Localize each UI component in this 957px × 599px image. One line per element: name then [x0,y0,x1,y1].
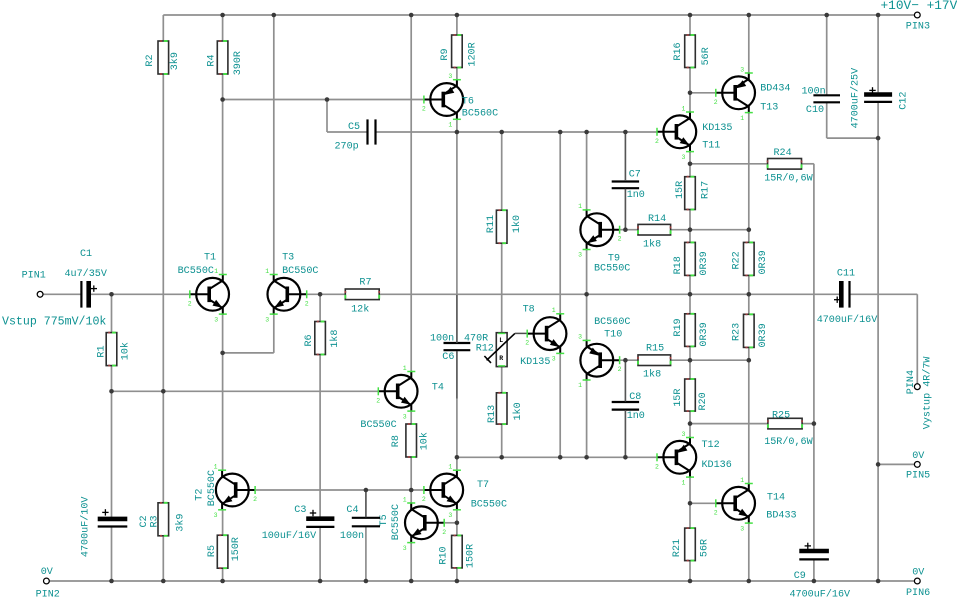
resistor R18 [673,242,710,275]
svg-text:BC560C: BC560C [462,109,498,120]
terminal PIN5 [906,451,930,482]
wire [624,133,626,181]
svg-text:KD135: KD135 [702,123,732,134]
wire [307,293,346,295]
svg-text:T10: T10 [604,330,622,341]
wire [456,568,458,581]
svg-text:15R/0,6W: 15R/0,6W [764,436,813,448]
svg-text:10k: 10k [418,432,430,450]
wire [319,294,321,321]
junction [812,421,817,426]
svg-text:BC550C: BC550C [207,470,218,506]
svg-text:R17: R17 [700,181,711,199]
svg-text:BC550C: BC550C [471,500,507,511]
transistor T9 BC550C [578,203,630,274]
svg-text:R14: R14 [648,214,666,225]
wire [222,568,224,581]
svg-text:0V: 0V [41,567,53,578]
wire [802,163,814,165]
svg-text:T1: T1 [204,252,216,263]
svg-text:C4: C4 [346,505,358,516]
wire [689,15,691,35]
svg-text:1: 1 [740,477,744,484]
svg-text:2: 2 [714,509,718,516]
wire [410,15,412,371]
wire [223,99,425,101]
svg-text:1n0: 1n0 [627,411,645,422]
svg-text:3: 3 [403,413,407,420]
capacitor C5 [335,119,376,152]
wire [326,100,328,133]
capacitor C2 [79,497,150,558]
wire [748,15,750,72]
junction [364,579,369,584]
svg-text:PIN4: PIN4 [906,370,917,394]
junction [688,162,693,167]
wire [456,295,458,343]
transistor T8 KD135 [520,305,566,369]
svg-text:3: 3 [214,316,218,323]
junction [623,130,628,135]
wire [457,456,657,458]
junction [623,455,628,460]
junction [688,421,693,426]
svg-text:2: 2 [655,138,659,145]
svg-text:R16: R16 [673,42,684,60]
wire [827,137,878,139]
svg-text:PIN5: PIN5 [906,471,930,482]
junction [161,579,166,584]
svg-text:100uF/16V: 100uF/16V [262,530,317,542]
wire [689,152,691,164]
capacitor C9 [790,543,851,599]
resistor R14 [638,214,671,251]
svg-text:R22: R22 [732,251,743,269]
junction [318,579,323,584]
wire [376,131,457,133]
resistor R16 [673,35,712,68]
svg-text:0V: 0V [912,451,924,462]
capacitor C11 [817,269,878,326]
resistor R2 [145,41,181,74]
junction [220,97,225,102]
svg-text:T2: T2 [194,489,205,501]
svg-text:1: 1 [448,464,452,471]
svg-text:120R: 120R [468,42,479,66]
wire [501,424,503,457]
capacitor C3 [262,505,335,542]
junction [455,13,460,18]
junction [109,389,114,394]
wire [620,359,638,361]
svg-text:100n: 100n [340,531,364,542]
wire [624,410,626,457]
transistor T4 BC550C [360,365,444,431]
junction [824,13,829,18]
wire [748,347,750,360]
svg-text:R19: R19 [673,318,684,336]
junction [747,227,752,232]
junction [688,13,693,18]
svg-text:T8: T8 [523,305,535,316]
wire [689,210,691,230]
svg-text:T14: T14 [767,492,785,503]
resistor R19 [673,314,710,347]
svg-text:4u7/35V: 4u7/35V [65,268,107,280]
junction [558,130,563,135]
resistor R6 [304,322,341,355]
svg-text:2: 2 [714,99,718,106]
svg-text:R23: R23 [732,323,743,341]
svg-text:C8: C8 [629,392,641,403]
svg-text:270p: 270p [335,142,359,153]
junction [409,488,414,493]
wire [689,346,691,360]
junction [364,488,369,493]
svg-text:KD136: KD136 [702,460,732,471]
wire [826,15,828,95]
junction [455,455,460,460]
transistor T14 BD433 [714,477,797,533]
wire [826,102,828,138]
transistor T6 BC560C [422,73,498,129]
svg-text:BC550C: BC550C [282,266,318,277]
junction [747,579,752,584]
svg-text:R: R [499,355,503,362]
wire [748,524,750,581]
svg-text:15R: 15R [673,389,684,407]
transistor T3 BC550C [265,252,318,323]
junction [220,351,225,356]
svg-text:3k9: 3k9 [169,52,181,70]
svg-text:3: 3 [214,512,218,519]
wire [410,457,412,490]
capacitor C7 [612,170,645,202]
wire [877,102,879,581]
svg-text:R1: R1 [96,345,107,357]
svg-text:0R39: 0R39 [758,250,769,274]
wire [624,410,626,458]
wire [222,353,224,470]
junction [747,13,752,18]
svg-text:3: 3 [448,73,452,80]
wire [410,543,412,581]
resistor R8 [391,424,431,457]
svg-text:100n: 100n [430,333,454,344]
wire [255,489,424,491]
svg-text:PIN1: PIN1 [22,270,46,281]
wire [624,188,626,230]
svg-text:R3: R3 [149,515,160,527]
svg-text:10k: 10k [119,342,131,360]
wire [689,561,691,581]
transistor T13 BD434 [714,66,791,122]
svg-text:C11: C11 [837,269,855,280]
wire [624,361,626,402]
svg-text:150R: 150R [231,537,242,561]
wire [456,132,458,344]
svg-text:4700uF/10V: 4700uF/10V [79,497,91,558]
wire [456,68,458,80]
wire [586,132,588,209]
capacitor C1 [65,249,107,307]
svg-text:2: 2 [525,340,529,347]
svg-text:1: 1 [214,268,218,275]
svg-text:1k8: 1k8 [643,238,661,250]
svg-text:15R/0,6W: 15R/0,6W [764,172,813,184]
svg-text:0R39: 0R39 [699,322,710,346]
svg-text:R15: R15 [646,343,664,354]
wire [379,293,841,295]
terminal PIN6 [906,568,930,599]
svg-text:3: 3 [740,66,744,73]
capacitor C10 [802,86,841,116]
svg-text:T6: T6 [462,96,474,107]
svg-text:3: 3 [448,512,452,519]
resistor R21 [672,528,710,561]
wire [624,360,626,402]
transistor T5 BC550C [379,496,446,552]
wire [689,275,691,294]
wire [319,355,321,518]
wire [689,164,691,177]
wire [689,478,691,504]
wire [586,381,588,458]
transistor T2 BC550C [194,464,257,520]
wire [273,315,275,353]
terminal PIN4 [906,356,933,430]
wire [748,275,750,294]
wire [689,360,691,379]
svg-text:R21: R21 [672,539,683,557]
junction [688,292,693,297]
wire [111,527,113,581]
svg-text:Vstup 775mV/10k: Vstup 775mV/10k [2,316,106,329]
transistor T10 BC560C [578,317,630,389]
resistor R5 [207,535,242,568]
junction [876,462,881,467]
junction [747,358,752,363]
wire [111,294,113,332]
svg-text:R7: R7 [359,277,371,288]
svg-text:BC560C: BC560C [594,317,630,328]
svg-text:BC550C: BC550C [178,266,214,277]
junction [876,13,881,18]
junction [812,579,817,584]
svg-text:4700uF/16V: 4700uF/16V [817,314,878,326]
resistor R7 [345,277,379,315]
junction [220,13,225,18]
wire [222,315,224,353]
wire [89,293,190,295]
junction [688,358,693,363]
svg-text:C9: C9 [794,571,806,582]
junction [584,455,589,460]
svg-text:R25: R25 [772,411,790,422]
svg-text:2: 2 [655,463,659,470]
svg-text:1: 1 [403,496,407,503]
wire [222,15,224,41]
junction [220,579,225,584]
junction [688,579,693,584]
svg-text:BC550C: BC550C [360,420,396,431]
wire [319,527,321,581]
junction [499,455,504,460]
wire [162,536,164,581]
wire [410,490,412,502]
junction [688,91,693,96]
capacitor C6 [430,333,470,363]
svg-text:PIN2: PIN2 [36,590,60,599]
svg-text:3: 3 [265,316,269,323]
resistor R25 [764,411,813,449]
svg-text:2: 2 [188,300,192,307]
svg-text:4700uF/16V: 4700uF/16V [790,589,851,599]
wire [689,424,691,437]
svg-text:C1: C1 [80,249,92,260]
wire [456,351,458,470]
svg-text:1: 1 [214,464,218,471]
junction [584,292,589,297]
junction [318,292,323,297]
wire [748,294,750,314]
wire [457,131,657,133]
wire [163,14,914,16]
junction [499,130,504,135]
wire [671,359,690,361]
svg-text:390R: 390R [233,51,244,75]
svg-text:PIN3: PIN3 [906,21,930,32]
svg-text:T5: T5 [379,514,390,526]
svg-text:12k: 12k [351,304,369,316]
svg-text:C7: C7 [629,170,641,181]
svg-text:1: 1 [265,268,269,275]
wire [690,92,716,94]
svg-text:1n0: 1n0 [627,190,645,201]
svg-text:0R39: 0R39 [758,323,769,347]
wire [365,526,367,581]
wire [624,132,626,182]
wire [327,131,368,133]
svg-text:T13: T13 [760,103,778,114]
junction [876,136,881,141]
junction [688,501,693,506]
svg-text:C3: C3 [294,505,306,516]
svg-text:BC550C: BC550C [594,264,630,275]
svg-text:2: 2 [618,236,622,243]
svg-text:R11: R11 [486,215,497,233]
wire [690,502,716,504]
svg-text:PIN6: PIN6 [906,588,930,599]
wire [559,132,561,313]
svg-text:1k0: 1k0 [512,402,524,420]
junction [688,227,693,232]
svg-text:3: 3 [578,334,582,341]
svg-text:T12: T12 [702,440,720,451]
resistor R23 [732,314,769,347]
transistor T12 KD136 [655,431,732,487]
svg-text:2: 2 [422,496,426,503]
svg-text:3: 3 [403,545,407,552]
wire [456,120,458,132]
svg-text:T11: T11 [702,141,720,152]
transistor T1 BC550C [178,252,229,323]
svg-text:C2: C2 [139,515,150,527]
svg-text:R6: R6 [304,334,315,346]
wire [813,164,815,424]
wire [112,390,379,392]
terminal PIN2 [36,567,60,599]
resistor R3 [149,503,186,536]
svg-text:T3: T3 [282,252,294,263]
svg-text:15R: 15R [675,181,686,199]
junction [455,579,460,584]
svg-text:BD433: BD433 [766,511,796,522]
wire [802,423,814,425]
resistor R4 [207,41,245,75]
svg-text:R5: R5 [207,545,218,557]
wire [273,15,275,274]
wire [444,522,457,524]
svg-text:1: 1 [552,307,556,314]
wire [586,250,588,294]
svg-text:100n: 100n [802,86,826,97]
svg-text:1k8: 1k8 [643,369,661,381]
svg-text:C5: C5 [348,122,360,133]
svg-text:2: 2 [422,106,426,113]
svg-text:C10: C10 [806,105,824,116]
junction [584,130,589,135]
wire [690,163,768,165]
junction [623,227,628,232]
svg-text:R12: R12 [476,344,494,355]
capacitor C4 [340,505,380,542]
wire [689,411,691,424]
svg-text:56R: 56R [699,539,710,557]
wire [456,15,458,35]
svg-text:R18: R18 [673,256,684,274]
wire [501,243,503,333]
svg-text:2: 2 [305,300,309,307]
svg-text:R2: R2 [145,54,156,66]
svg-text:3: 3 [682,431,686,438]
svg-text:2: 2 [442,529,446,536]
wire [501,132,503,210]
wire [748,360,750,483]
svg-text:KD135: KD135 [520,357,550,368]
svg-text:3: 3 [740,525,744,532]
svg-text:1: 1 [578,203,582,210]
svg-text:150R: 150R [465,544,476,568]
resistor R22 [732,242,769,275]
svg-text:0V: 0V [912,568,924,579]
junction [876,579,881,584]
wire [690,229,749,231]
wire [690,359,749,361]
resistor R17 [675,177,711,210]
svg-text:R8: R8 [391,435,402,447]
wire [878,463,914,465]
resistor R15 [638,343,671,380]
svg-text:Vystup 4R/7W: Vystup 4R/7W [921,356,933,430]
svg-text:R9: R9 [440,48,451,60]
wire [365,490,367,518]
wire [624,189,626,230]
junction [409,13,414,18]
capacitor C12 [850,68,910,129]
wire [813,424,815,550]
junction [161,389,166,394]
